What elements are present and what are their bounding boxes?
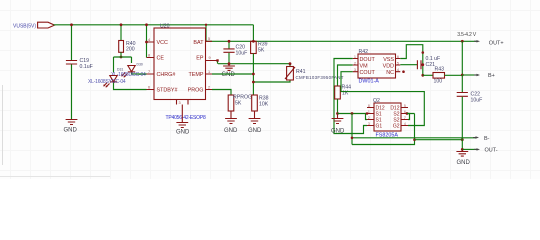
svg-text:B-: B- <box>484 136 490 142</box>
wire C21/R43 riser <box>422 65 424 76</box>
wire TEMP pin <box>212 73 253 75</box>
resistor R38 <box>252 95 269 111</box>
svg-text:GND: GND <box>457 160 471 166</box>
wire S2 lower return <box>352 114 415 145</box>
svg-text:GND: GND <box>248 128 262 134</box>
resistor R43 <box>423 67 463 85</box>
thermistor R41 <box>285 64 344 80</box>
node C21 junction <box>421 63 424 66</box>
svg-text:8: 8 <box>368 104 370 108</box>
wire VDD to C21 <box>400 64 417 66</box>
faint grid <box>0 0 540 179</box>
node riser top <box>145 23 148 26</box>
svg-text:OUT+: OUT+ <box>489 41 504 47</box>
node R44/S1 junction <box>336 112 339 115</box>
ground (U20) <box>176 100 190 136</box>
svg-text:7: 7 <box>404 116 406 120</box>
wire VSS loop <box>400 45 423 65</box>
svg-text:D31: D31 <box>117 68 123 72</box>
node TEMP junction <box>252 73 255 76</box>
node VSS loop dot <box>422 51 425 54</box>
ground (C20) <box>222 64 236 78</box>
svg-text:6: 6 <box>148 86 150 90</box>
svg-text:6: 6 <box>397 55 399 59</box>
node R41 link junction <box>252 81 255 84</box>
resistor R44 <box>335 85 351 114</box>
node S2/OUT- riser junction <box>461 138 464 141</box>
node rail/R39 junction <box>252 40 255 43</box>
wire rail corner down to BAT net <box>252 25 254 42</box>
svg-text:VSS: VSS <box>383 57 394 63</box>
svg-text:0.1uF: 0.1uF <box>80 64 93 70</box>
node riser VCC <box>145 41 148 44</box>
svg-text:GND: GND <box>176 130 190 136</box>
svg-text:R42: R42 <box>359 49 369 55</box>
node R43 left junction <box>421 74 424 77</box>
svg-text:G1: G1 <box>376 124 383 130</box>
wire S2 to gnd line <box>407 114 462 140</box>
ground (RPROG) <box>224 111 238 134</box>
svg-text:CMFB103F3950FANT: CMFB103F3950FANT <box>296 75 344 80</box>
wire VM to R44 <box>338 65 353 86</box>
wire B+ to port <box>462 74 477 76</box>
ground (OUT-) <box>456 149 470 165</box>
wire S1 to B- <box>351 114 353 145</box>
wire B+ riser <box>461 41 463 75</box>
node S1 bracket junction <box>366 112 369 115</box>
wire VUSB top rail <box>54 24 254 26</box>
svg-text:DW01-A: DW01-A <box>359 79 380 85</box>
svg-text:1: 1 <box>368 110 370 114</box>
node OUT-/GND junction <box>461 148 464 151</box>
LED D31 (standby) <box>88 68 126 88</box>
wire LED1 to CHRG# pin <box>132 73 147 75</box>
svg-text:COUT: COUT <box>360 70 376 76</box>
node B- riser junction <box>351 137 354 140</box>
svg-text:100: 100 <box>434 79 443 85</box>
port B- <box>473 136 490 142</box>
svg-text:EP: EP <box>196 56 204 62</box>
svg-text:4: 4 <box>148 38 150 42</box>
svg-text:2: 2 <box>208 86 210 90</box>
svg-text:Q2: Q2 <box>373 98 380 104</box>
svg-text:5: 5 <box>404 104 406 108</box>
svg-text:VUSB(5V): VUSB(5V) <box>13 24 36 30</box>
wire S2 bracket <box>408 114 410 120</box>
svg-text:G2: G2 <box>393 124 400 130</box>
capacitor C22 <box>457 75 483 149</box>
capacitor C21 <box>417 56 440 69</box>
svg-text:2: 2 <box>368 116 370 120</box>
node R41 top junction <box>289 62 292 65</box>
ground (C19) <box>64 120 78 134</box>
svg-text:GND: GND <box>222 72 236 78</box>
svg-text:3: 3 <box>179 101 181 105</box>
node NC no-connect dot <box>402 70 405 73</box>
svg-text:TEMP: TEMP <box>189 72 204 78</box>
wire left LED branch down <box>113 57 115 73</box>
node OUT+ junction <box>461 40 464 43</box>
node R40 bottom junction <box>120 56 123 59</box>
node C20 top junction <box>228 40 231 43</box>
node S1/B- junction <box>351 112 354 115</box>
svg-text:GND: GND <box>331 129 345 135</box>
node C20 bottom junction <box>228 62 231 65</box>
wire DOUT to G1 <box>334 59 367 134</box>
wire LED feed horizontal <box>114 56 132 58</box>
node S2 line junction <box>413 138 416 141</box>
node VUSB/C19 junction <box>70 23 73 26</box>
ground (R44) <box>331 114 345 135</box>
svg-text:4: 4 <box>397 68 399 72</box>
resistor RPROG <box>212 90 252 112</box>
svg-text:VM: VM <box>360 63 369 69</box>
sheet border fragment <box>2 85 4 165</box>
wire S1 bracket <box>366 114 368 120</box>
svg-text:VDD: VDD <box>383 63 394 69</box>
svg-text:STDBY#: STDBY# <box>157 88 178 94</box>
svg-text:5K: 5K <box>235 101 242 107</box>
svg-text:PROG: PROG <box>188 88 204 94</box>
node R40 top junction <box>120 23 123 26</box>
capacitor C20 <box>223 41 247 63</box>
capacitor C19 <box>66 25 93 120</box>
svg-text:CE: CE <box>157 56 165 62</box>
wire VCC/CE riser <box>146 25 148 58</box>
wire BAT rail right <box>253 40 477 42</box>
svg-text:200: 200 <box>126 47 135 53</box>
svg-text:5K: 5K <box>258 48 265 54</box>
svg-text:B+: B+ <box>488 73 495 79</box>
svg-text:5: 5 <box>397 61 399 65</box>
wire OUT- <box>462 148 477 150</box>
node S2 junction <box>406 112 409 115</box>
wire LED2 to STDBY# pin <box>114 83 147 90</box>
svg-text:XL-1608SYGC-04: XL-1608SYGC-04 <box>88 79 126 85</box>
svg-text:R43: R43 <box>435 67 445 73</box>
wire right LED branch down <box>131 57 133 63</box>
svg-text:1: 1 <box>354 55 356 59</box>
svg-text:CHRG#: CHRG# <box>157 72 176 78</box>
port OUT+ <box>474 40 504 47</box>
svg-text:D30: D30 <box>137 63 143 67</box>
wire EP to gnd line <box>216 59 218 61</box>
svg-text:9: 9 <box>209 56 211 60</box>
LED D30 (charge) <box>111 63 146 79</box>
svg-text:OUT-: OUT- <box>485 148 498 154</box>
resistor R39 <box>251 41 268 95</box>
svg-text:U20: U20 <box>160 24 170 30</box>
wire gnd/thermistor line <box>218 63 290 65</box>
node BAT riser junction <box>205 24 207 26</box>
IC U42 DW01-A battery protection <box>353 49 401 85</box>
svg-text:GND: GND <box>224 128 238 134</box>
port VUSB(5V) <box>13 22 55 29</box>
wire BAT pin riser <box>205 25 207 42</box>
svg-text:TP4056-42-ESOP8: TP4056-42-ESOP8 <box>166 115 206 121</box>
ground (R38) <box>248 111 262 134</box>
wire COUT to G2 <box>341 72 424 126</box>
svg-text:2: 2 <box>354 61 356 65</box>
svg-text:DOUT: DOUT <box>360 57 376 63</box>
svg-text:4: 4 <box>404 122 406 126</box>
wire BAT pin to C20 <box>206 40 253 42</box>
transistor Q2 FS8205A <box>367 98 408 139</box>
svg-text:10K: 10K <box>259 102 269 108</box>
svg-text:5: 5 <box>208 37 210 41</box>
svg-text:3: 3 <box>368 122 370 126</box>
svg-text:GND: GND <box>64 128 78 134</box>
node B+ junction <box>461 74 464 77</box>
port OUT- <box>474 148 498 154</box>
IC U20 TP4056 charger <box>147 24 217 121</box>
wire S1 line <box>338 113 366 115</box>
svg-text:3.5-4.2 V: 3.5-4.2 V <box>457 32 477 38</box>
svg-text:1: 1 <box>208 70 210 74</box>
svg-text:8: 8 <box>148 54 150 58</box>
port B+ <box>474 73 495 79</box>
svg-text:VCC: VCC <box>157 40 168 46</box>
svg-text:7: 7 <box>148 70 150 74</box>
svg-text:10uF: 10uF <box>471 98 483 104</box>
wire R41 bottom link <box>253 80 290 82</box>
svg-text:BAT: BAT <box>193 40 204 46</box>
svg-text:3: 3 <box>354 68 356 72</box>
resistor R40 <box>119 25 136 57</box>
svg-text:NC: NC <box>386 70 394 76</box>
svg-text:10uF: 10uF <box>236 51 248 57</box>
